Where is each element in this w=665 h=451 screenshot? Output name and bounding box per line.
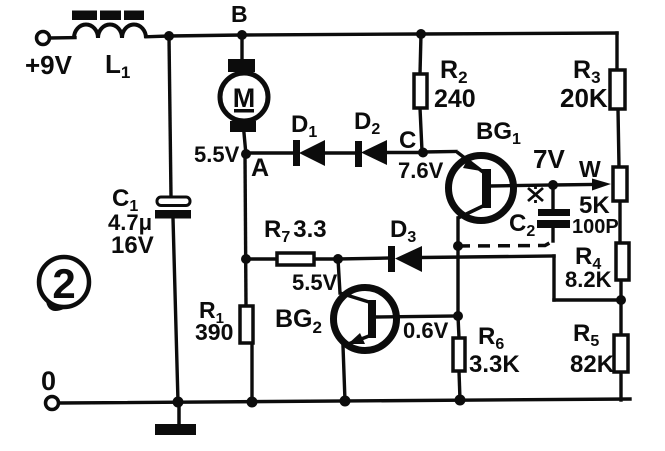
inductor L1 coil <box>74 25 146 39</box>
diode D3 <box>388 246 422 272</box>
wire BG2 emitter to bottom rail <box>343 346 345 401</box>
wire R3 to W pot <box>618 109 619 167</box>
svg-text:M: M <box>233 83 256 113</box>
svg-text:7.6V: 7.6V <box>398 158 444 183</box>
svg-text:390: 390 <box>195 319 233 345</box>
svg-text:D2: D2 <box>354 108 380 138</box>
wire C2 junction to W wiper arrow <box>553 183 593 187</box>
wire corner to R4-R5 junction <box>554 298 621 301</box>
wire R1 to bottom rail <box>250 343 253 402</box>
resistor R4 <box>616 243 629 280</box>
wire C2 bottom lead <box>551 228 554 241</box>
wire D3 left lead <box>338 258 390 259</box>
node A dot <box>241 149 251 159</box>
wire R5 to bottom rail <box>619 372 622 400</box>
svg-text:C2: C2 <box>509 210 535 240</box>
resistor R6 <box>453 338 465 371</box>
svg-text:C: C <box>399 127 416 154</box>
wire BG1 base to C2 junction <box>491 185 553 186</box>
node dot dashed junction <box>453 241 463 251</box>
figure number circle 2 <box>39 257 89 309</box>
svg-text:R2: R2 <box>440 56 468 87</box>
svg-text:+9V: +9V <box>25 50 73 80</box>
resistor R2 <box>414 74 427 108</box>
wire W pot to R4 <box>618 201 621 243</box>
svg-text:8.2K: 8.2K <box>565 267 612 292</box>
svg-text:R6: R6 <box>478 323 504 353</box>
svg-text:16V: 16V <box>111 232 154 259</box>
terminal 0 <box>46 397 59 410</box>
wire D3 anode to corner <box>422 256 554 258</box>
wire R6 top lead <box>458 316 459 338</box>
inductor L1 ferrite bead <box>72 11 144 21</box>
wire junction to R5 <box>619 300 622 335</box>
node B dot <box>237 30 247 40</box>
svg-text:20K: 20K <box>560 83 608 113</box>
wire R7 right lead <box>314 257 338 260</box>
asterisk mark <box>528 186 543 203</box>
svg-text:240: 240 <box>434 85 476 113</box>
wire R4 to junction <box>619 280 622 300</box>
node dot BG1 base / C2 <box>548 180 558 190</box>
svg-text:5K: 5K <box>579 192 610 219</box>
node dot rail R1 <box>247 397 258 408</box>
wire R2 top (rail to R2) <box>420 34 421 74</box>
node C dot <box>418 148 428 158</box>
motor M <box>220 59 268 132</box>
wire R7 left lead <box>246 257 277 260</box>
svg-text:D3: D3 <box>390 216 416 246</box>
wire R2 bottom to node C <box>420 108 422 151</box>
resistor R1 <box>240 306 253 343</box>
svg-text:100P: 100P <box>572 216 619 238</box>
capacitor C2 <box>537 209 570 228</box>
node dot BG2 base junction <box>453 311 463 321</box>
wire BG2 base to R6 line <box>376 316 458 317</box>
svg-text:2: 2 <box>52 260 75 307</box>
diode D1 <box>293 140 325 166</box>
svg-text:5.5V: 5.5V <box>194 142 240 167</box>
svg-text:0.6V: 0.6V <box>403 318 449 343</box>
svg-text:BG2: BG2 <box>275 305 322 337</box>
potentiometer W body <box>613 167 627 201</box>
wire node A to D1 <box>246 151 296 154</box>
svg-text:3.3K: 3.3K <box>469 351 520 378</box>
wire D2 to node C <box>387 151 423 154</box>
wire node A down to R7 junction <box>245 155 246 306</box>
node dot rail BG2 emitter <box>340 396 351 407</box>
svg-text:B: B <box>231 1 248 27</box>
wire C2 top lead <box>551 185 554 209</box>
node dot R4-R5 junction <box>616 295 626 305</box>
diode D2 <box>355 140 387 167</box>
resistor R7 <box>277 253 314 265</box>
resistor R3 <box>610 70 625 109</box>
wire node C to BG1 emitter <box>423 150 456 154</box>
potentiometer W wiper arrow <box>592 179 611 191</box>
wire B to motor <box>240 35 243 58</box>
svg-text:7V: 7V <box>533 144 565 174</box>
transistor BG1 <box>449 152 514 221</box>
node dot R7 right <box>333 254 343 264</box>
svg-text:0: 0 <box>41 366 56 396</box>
wire BG1 collector vertical <box>456 218 459 316</box>
transistor BG2 <box>334 288 397 351</box>
wire right column top (rail to R3) <box>615 33 618 70</box>
node junction dot (L1/C1) <box>164 31 174 41</box>
wire motor to node A <box>244 133 246 155</box>
svg-text:BG1: BG1 <box>476 118 521 148</box>
ground <box>155 402 196 435</box>
svg-text:5.5V: 5.5V <box>292 270 338 295</box>
svg-text:R5: R5 <box>573 320 599 350</box>
node dot rail C1 <box>173 397 184 408</box>
node R2 top dot <box>416 29 426 39</box>
node dot rail R6 <box>455 395 466 406</box>
wire top rail <box>50 36 75 40</box>
wire R7 junction down to BG2 collector <box>338 259 340 293</box>
wire C1 to bottom rail <box>173 218 178 402</box>
wire bottom rail <box>59 399 630 403</box>
node dot R7 left <box>241 254 251 264</box>
svg-text:L1: L1 <box>105 49 130 82</box>
svg-text:R73.3: R73.3 <box>264 216 327 246</box>
svg-text:W: W <box>579 156 601 182</box>
wire left column (junction to C1) <box>169 36 171 197</box>
terminal +9V <box>37 32 50 45</box>
wire dashed compensation link <box>458 241 553 246</box>
wire R6 to bottom rail <box>459 371 460 400</box>
svg-text:A: A <box>251 154 269 182</box>
resistor R5 <box>614 335 628 372</box>
capacitor C1 <box>155 197 191 219</box>
svg-text:D1: D1 <box>291 111 317 141</box>
wire D1 to D2 <box>325 151 358 154</box>
svg-text:82K: 82K <box>570 351 615 378</box>
wire corner down <box>552 256 555 300</box>
